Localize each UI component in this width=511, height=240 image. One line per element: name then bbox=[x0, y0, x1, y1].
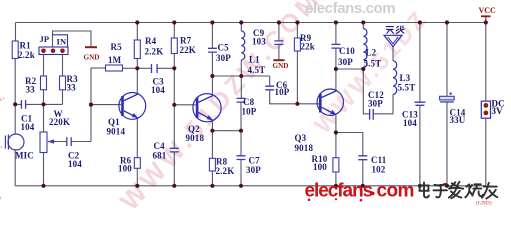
capacitor C11 bbox=[358, 155, 387, 175]
capacitor C8 bbox=[237, 97, 257, 117]
wire MIC to ground bus bbox=[14, 150, 16, 186]
wire top VCC bus bbox=[16, 22, 486, 24]
svg-text:5.5T: 5.5T bbox=[398, 83, 416, 93]
wire C12 left leg bbox=[363, 69, 369, 114]
wire audio line segment B bbox=[26, 103, 63, 105]
svg-text:3V: 3V bbox=[492, 106, 504, 116]
watermark diagonal 51dzw B bbox=[309, 5, 433, 139]
wire C2 to base column bbox=[71, 141, 91, 143]
wire pot bottom bbox=[43, 153, 45, 186]
wire Q2 base bbox=[174, 104, 195, 106]
svg-text:JP: JP bbox=[40, 34, 50, 44]
svg-text:100: 100 bbox=[313, 162, 327, 172]
svg-text:104: 104 bbox=[151, 85, 165, 95]
capacitor C6 bbox=[265, 80, 290, 97]
inductor L2 bbox=[363, 29, 381, 69]
wire C10 bottom bbox=[335, 48, 337, 69]
svg-text:C10: C10 bbox=[339, 46, 355, 56]
wire R2 bottom bbox=[43, 90, 45, 105]
svg-text:104: 104 bbox=[403, 118, 417, 128]
wire C12 right leg to L3 bbox=[373, 94, 393, 113]
svg-text:C4: C4 bbox=[154, 141, 166, 151]
svg-text:103: 103 bbox=[252, 37, 266, 47]
wire antenna stem bbox=[392, 47, 394, 61]
capacitor C12 bbox=[368, 90, 384, 120]
watermark elecfans bottom bbox=[305, 181, 414, 202]
svg-text:30P: 30P bbox=[338, 57, 353, 67]
wire Q2 emitter to R8 bbox=[211, 120, 213, 158]
svg-text:30P: 30P bbox=[246, 165, 261, 175]
wire C8 top lead bbox=[240, 76, 242, 98]
wire R3 bottom elbow bbox=[62, 90, 64, 105]
svg-text:IN: IN bbox=[57, 37, 67, 47]
wire C6 drop bbox=[269, 76, 271, 86]
microphone MIC bbox=[5, 134, 34, 161]
svg-text:R4: R4 bbox=[145, 36, 157, 46]
capacitor C1 bbox=[21, 100, 35, 132]
wire R10 bottom bbox=[335, 172, 337, 186]
wire tank2 horizontal bbox=[336, 68, 363, 70]
inductor L1 bbox=[241, 31, 265, 75]
wire right rail bottom bbox=[485, 118, 487, 186]
resistor R10 bbox=[312, 154, 339, 172]
svg-text:Q1: Q1 bbox=[108, 117, 120, 127]
wire connector pin1 to R2 bbox=[43, 55, 45, 77]
node dots bottom bus bbox=[41, 184, 449, 188]
svg-text:22K: 22K bbox=[180, 45, 196, 55]
svg-text:33: 33 bbox=[67, 83, 77, 93]
battery DC 3V bbox=[481, 99, 505, 119]
wire IN box to GND bbox=[53, 31, 92, 47]
ground GND1 bbox=[84, 47, 100, 61]
wire C5 top bbox=[211, 23, 213, 49]
watermark diagonal 51dzw A bbox=[114, 0, 328, 216]
svg-text:L2: L2 bbox=[366, 48, 377, 58]
capacitor C9 bbox=[252, 28, 283, 47]
wire C3 left bbox=[137, 67, 151, 69]
connector JP bbox=[39, 34, 68, 55]
resistor R6 bbox=[118, 156, 140, 174]
svg-text:9018: 9018 bbox=[186, 133, 205, 143]
svg-text:30P: 30P bbox=[216, 53, 231, 63]
resistor R1 bbox=[12, 41, 35, 61]
wire C5 bottom to tank node bbox=[211, 52, 213, 76]
svg-text:2.2k: 2.2k bbox=[18, 50, 35, 60]
capacitor C5 bbox=[208, 43, 231, 64]
svg-text:L3: L3 bbox=[400, 73, 411, 83]
potentiometer W bbox=[40, 109, 70, 153]
svg-text:VCC: VCC bbox=[479, 6, 497, 15]
wire C11 horizontal bbox=[336, 133, 363, 156]
wire R4 bottom to Q1 collector bbox=[136, 59, 138, 96]
svg-text:com: com bbox=[377, 181, 414, 202]
wire L2 top bbox=[362, 23, 364, 29]
wire R9 top bbox=[296, 23, 298, 39]
wire C6 to Q3 base line bbox=[270, 90, 319, 104]
wire right rail top bbox=[485, 23, 487, 102]
wire C7 bottom bbox=[240, 160, 242, 186]
svg-text:5.5T: 5.5T bbox=[364, 59, 382, 69]
inductor L3 bbox=[393, 61, 415, 95]
wire base column vertical bbox=[90, 68, 92, 142]
svg-text:Q3: Q3 bbox=[295, 133, 307, 143]
resistor R8 bbox=[209, 157, 234, 177]
wire R7 top bbox=[173, 23, 175, 39]
svg-text:33U: 33U bbox=[450, 115, 466, 125]
svg-text:C11: C11 bbox=[371, 155, 387, 165]
wire Q1 emitter to R6 bbox=[136, 118, 138, 158]
capacitor C2 bbox=[67, 137, 82, 169]
node dots top bus bbox=[135, 20, 488, 24]
wire wiper to C2 bbox=[48, 141, 67, 143]
svg-text:elecfans: elecfans bbox=[305, 181, 373, 202]
svg-text:104: 104 bbox=[21, 122, 35, 132]
wire R7 bottom bbox=[173, 54, 175, 105]
capacitor C3 bbox=[151, 64, 165, 95]
resistor R5 bbox=[106, 42, 123, 71]
wire R5 right bbox=[123, 67, 138, 69]
svg-text:220K: 220K bbox=[49, 117, 70, 127]
svg-text:R1: R1 bbox=[20, 41, 32, 51]
svg-text:GND: GND bbox=[273, 62, 289, 70]
svg-text:C5: C5 bbox=[218, 43, 230, 53]
svg-text:C7: C7 bbox=[249, 156, 261, 166]
wire C8 bottom to emitter node bbox=[240, 102, 242, 131]
wire C9 to GND2 bbox=[278, 44, 280, 59]
wire tank horizontal bbox=[212, 75, 269, 77]
label tianxian antenna bbox=[386, 26, 405, 34]
resistor R3 bbox=[60, 74, 79, 93]
capacitor C10 bbox=[331, 44, 355, 67]
wire mic node to MIC bbox=[14, 104, 16, 134]
wire C14 top bbox=[446, 23, 448, 97]
svg-text:30P: 30P bbox=[368, 99, 383, 109]
wire tank node to Q2 collector bbox=[211, 76, 213, 96]
svg-text:MIC: MIC bbox=[15, 151, 34, 161]
wire connector pin3 to R3 bbox=[62, 55, 64, 77]
svg-text:10P: 10P bbox=[242, 107, 257, 117]
wire L2 bottom bbox=[362, 68, 364, 70]
svg-text:681: 681 bbox=[153, 151, 167, 161]
resistor R9 bbox=[294, 33, 315, 52]
svg-text:22k: 22k bbox=[301, 42, 315, 52]
wire pot top bbox=[43, 104, 45, 132]
wire R1 bottom to mic node bbox=[14, 59, 16, 105]
svg-text:10P: 10P bbox=[275, 87, 290, 97]
wire R9 bottom bbox=[296, 51, 298, 104]
svg-text:33: 33 bbox=[26, 85, 36, 95]
resistor R4 bbox=[134, 36, 163, 59]
wire R5 left bbox=[91, 67, 106, 69]
svg-text:102: 102 bbox=[372, 165, 386, 175]
wire left rail R1 top bbox=[15, 23, 17, 42]
svg-text:GND: GND bbox=[84, 54, 100, 62]
power VCC bbox=[479, 6, 497, 23]
wire R6 bottom bbox=[136, 168, 138, 186]
wire C13 bottom bbox=[419, 105, 421, 186]
svg-text:elecfans.com: elecfans.com bbox=[305, 0, 395, 17]
svg-text:9014: 9014 bbox=[107, 127, 126, 137]
svg-text:1M: 1M bbox=[108, 55, 122, 65]
resistor R7 bbox=[171, 36, 196, 56]
wire R8 bottom bbox=[211, 171, 213, 186]
ground GND2 bbox=[273, 60, 289, 70]
wire Q1 base bbox=[91, 104, 121, 106]
wire Q2 base node to C4 bbox=[173, 105, 175, 148]
wire C10 top bbox=[335, 23, 337, 45]
node dots mid junctions bbox=[13, 66, 365, 134]
svg-text:(GND): (GND) bbox=[476, 200, 492, 207]
svg-text:4.5T: 4.5T bbox=[248, 65, 266, 75]
capacitor C4 bbox=[153, 141, 179, 161]
wire emitter node horizontal bbox=[212, 130, 241, 132]
transistor Q2 bbox=[186, 94, 222, 143]
svg-text:C8: C8 bbox=[243, 97, 255, 107]
svg-text:2.2K: 2.2K bbox=[216, 166, 235, 176]
wire audio line segment A bbox=[15, 103, 21, 105]
svg-text:104: 104 bbox=[68, 159, 82, 169]
wire C13 top bbox=[419, 23, 421, 103]
wire L1 top bbox=[240, 23, 242, 32]
svg-text:9018: 9018 bbox=[295, 143, 314, 153]
wire C4 bottom bbox=[173, 152, 175, 186]
capacitor C13 bbox=[402, 102, 425, 128]
wire C3 right bbox=[157, 67, 174, 69]
resistor R2 bbox=[25, 76, 47, 95]
svg-text:2.2K: 2.2K bbox=[145, 47, 164, 57]
wire Q3 collector bbox=[335, 69, 337, 91]
transistor Q1 bbox=[107, 93, 146, 137]
wire C9 top bbox=[278, 23, 280, 41]
wire Q3 emitter to R10 bbox=[335, 115, 337, 158]
wire R4 top bbox=[136, 23, 138, 41]
wire C14 bottom bbox=[446, 102, 448, 186]
node IN box bbox=[53, 35, 68, 47]
wire C11 bottom bbox=[362, 160, 364, 186]
wire L1 bottom bbox=[240, 60, 242, 76]
svg-text:100: 100 bbox=[118, 164, 132, 174]
wire bottom ground bus bbox=[15, 185, 486, 187]
wire C7 top lead bbox=[240, 131, 242, 156]
svg-text:L1: L1 bbox=[249, 55, 260, 65]
capacitor C14 electrolytic bbox=[440, 92, 466, 125]
transistor Q3 bbox=[295, 89, 344, 153]
watermark chinese characters bbox=[419, 182, 497, 199]
svg-text:R5: R5 bbox=[111, 42, 123, 52]
antenna bbox=[384, 35, 402, 46]
svg-text:R8: R8 bbox=[216, 157, 228, 167]
capacitor C7 bbox=[237, 156, 262, 176]
svg-text:R7: R7 bbox=[180, 36, 192, 46]
